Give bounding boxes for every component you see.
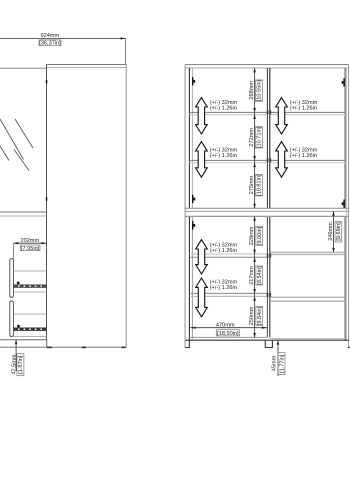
svg-text:[36,37in]: [36,37in] [39,41,61,47]
svg-text:229mm: 229mm [249,226,255,245]
svg-text:(+/-) 1.26in: (+/-) 1.26in [290,106,317,112]
svg-text:[8.54in]: [8.54in] [257,266,263,285]
svg-text:45mm: 45mm [272,355,278,371]
svg-text:(+/-) 1.26in: (+/-) 1.26in [290,153,317,159]
svg-text:202mm: 202mm [20,238,39,244]
svg-text:217mm: 217mm [249,266,255,285]
svg-text:268mm: 268mm [249,81,255,100]
svg-text:(+/-) 1.26in: (+/-) 1.26in [210,248,237,254]
svg-text:[10.71in]: [10.71in] [256,126,262,148]
svg-text:250mm: 250mm [249,306,255,325]
svg-text:470mm: 470mm [216,322,235,328]
svg-text:924mm: 924mm [40,33,59,39]
svg-text:275mm: 275mm [249,175,255,194]
svg-text:[9.84in]: [9.84in] [257,306,263,325]
svg-text:[10.55in]: [10.55in] [256,79,262,101]
svg-text:272mm: 272mm [249,128,255,147]
svg-text:[9.69in]: [9.69in] [336,222,342,241]
svg-text:(+/-) 1.26in: (+/-) 1.26in [210,285,237,291]
svg-text:[7.95in]: [7.95in] [21,246,40,252]
svg-text:[1.87in]: [1.87in] [18,355,24,374]
svg-text:(+/-) 1.26in: (+/-) 1.26in [210,106,237,112]
svg-text:246mm: 246mm [328,222,334,241]
svg-text:(+/-) 1.26in: (+/-) 1.26in [210,153,237,159]
svg-text:[18,50in]: [18,50in] [217,331,239,337]
svg-text:[9.00in]: [9.00in] [257,226,263,245]
svg-text:[10.81in]: [10.81in] [256,174,262,196]
svg-text:[1.77in]: [1.77in] [280,354,286,373]
